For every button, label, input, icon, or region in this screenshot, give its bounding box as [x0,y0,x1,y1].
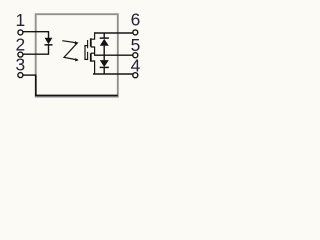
transistor Q2 drain lead [91,61,95,74]
light arrow zigzag [62,41,78,60]
body diode D2 triangle up [100,39,109,46]
light arrowhead upper [75,41,79,44]
svg-text:5: 5 [131,35,141,55]
wire pin3 stub [23,74,37,76]
package outline U1 [36,14,118,96]
LED D1 triangle [45,38,53,45]
wire LED column top [48,32,50,39]
body diode D3 triangle down [100,60,109,67]
gate bus [84,45,86,60]
wire LED column bottom [48,45,50,54]
svg-text:2: 2 [15,34,25,54]
body diode D3 column bottom [103,67,105,74]
terminal pin 1 [18,30,23,35]
terminal pin 3 [18,73,23,78]
wire pin1 to LED anode [23,31,49,33]
light arrowhead lower [75,58,79,61]
transistor Q2 channel [90,53,92,61]
transistor Q1 source lead [91,47,95,55]
gate tick Q2 [84,58,88,60]
wire diode midpoint [103,46,105,61]
gate tick Q1 [84,45,88,47]
body diode D2 cathode bar [100,37,109,39]
wire pin6 row [94,32,133,34]
terminal pin 4 [133,73,138,78]
transistor Q1 drain lead [91,32,95,39]
terminal pin 6 [133,30,138,35]
terminal pin 2 [18,52,23,57]
LED D1 cathode bar [45,44,53,46]
svg-text:6: 6 [131,9,141,29]
transistor Q2 source lead [91,52,95,54]
transistor Q1 gate electrode [87,40,89,48]
body diode D3 cathode bar [100,66,109,68]
body diode D2 column top [103,33,105,38]
wire pin5 row [94,54,133,56]
terminal pin 5 [133,53,138,58]
wire pin4 row [93,73,133,75]
svg-text:1: 1 [15,10,25,30]
transistor Q2 gate electrode [87,52,89,60]
transistor Q1 channel [90,38,92,46]
wire pin2 to LED cathode [23,53,49,55]
wire return path left and bottom [36,75,118,95]
